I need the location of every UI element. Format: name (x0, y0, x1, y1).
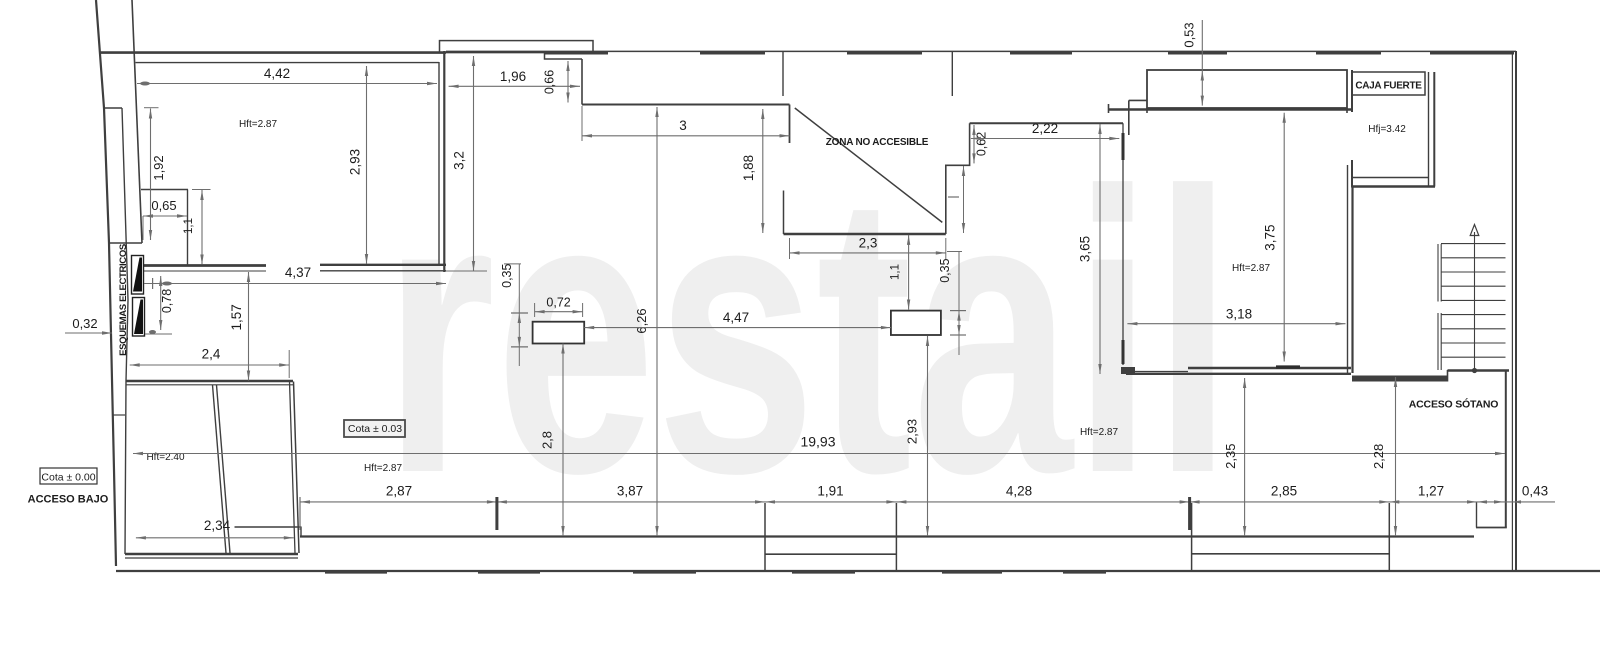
wall ledge left of chain start (235, 526, 302, 528)
wall top thick segment 4 (1010, 52, 1072, 55)
svg-text:2,22: 2,22 (1032, 121, 1058, 136)
recess 2 under wall (1192, 503, 1390, 571)
dimension 2,3 (790, 252, 946, 254)
wall caja fuerte right outer (1433, 72, 1435, 187)
wall right room bottom dark dash (1276, 365, 1300, 368)
wall outer bottom thick segment 4 (792, 570, 855, 573)
wall sotano step vertical (1476, 503, 1478, 528)
wall bl-room top heavy (126, 380, 293, 382)
dimension 0,72 (535, 311, 583, 313)
wall caja fuerte left upper (1351, 70, 1353, 112)
wall left inner slant mid (122, 108, 128, 554)
wall bl-room bottom heavy (125, 553, 298, 555)
wall zona left lower (783, 191, 785, 235)
dimension 4,47 (584, 327, 891, 329)
wall interior bottom (300, 535, 1474, 537)
svg-text:Hft=2.87: Hft=2.87 (364, 463, 403, 474)
extension 0,65 left (142, 216, 144, 240)
wall caja fuerte bottom heavy (1352, 185, 1435, 187)
dimension 3 (582, 135, 790, 137)
dimension 0,35 left column (518, 264, 520, 366)
wall outer bottom thick segment 3 (633, 570, 696, 573)
dimension 0,78 (160, 276, 162, 330)
column 1 (left pillar) (533, 322, 585, 344)
svg-text:0,78: 0,78 (160, 289, 174, 313)
svg-text:ESQUEMAS ELECTRICOS: ESQUEMAS ELECTRICOS (118, 243, 129, 356)
closet rect top of right room (1147, 70, 1347, 108)
wall tick at x783 (782, 52, 784, 96)
svg-text:0,62: 0,62 (975, 132, 989, 156)
svg-text:3,75: 3,75 (1263, 224, 1278, 250)
dimension 2,93 room (366, 66, 368, 264)
wall top-left room right outer (443, 51, 445, 272)
wall right room bottom door sill (1134, 371, 1188, 373)
wall top of top-left room inner (136, 62, 440, 64)
dimension 0,65 (143, 215, 187, 217)
dimension 2,28 (1395, 377, 1397, 536)
dimension 0,53 (1201, 20, 1203, 106)
svg-text:3,65: 3,65 (1078, 236, 1093, 262)
svg-text:0,35: 0,35 (938, 258, 952, 282)
svg-text:CAJA FUERTE: CAJA FUERTE (1355, 81, 1422, 92)
dimension small right of zona (963, 166, 965, 233)
dimension 1,88 (762, 109, 764, 233)
wall top thin continuous (446, 50, 1516, 52)
svg-text:2,4: 2,4 (202, 347, 221, 362)
wall top-left room bottom left lower line (138, 270, 266, 272)
wall step to stairs bottom (1447, 370, 1449, 382)
svg-text:4,37: 4,37 (285, 265, 311, 280)
wall top thick segment 7 (1430, 52, 1514, 55)
dimension 1,1 zona (908, 235, 910, 310)
extension lines for 2,3 (789, 238, 791, 259)
svg-text:0,65: 0,65 (151, 198, 176, 213)
wall jog y108 (104, 107, 123, 109)
svg-text:Cota ± 0.03: Cota ± 0.03 (348, 423, 402, 435)
wall top-left room bottom right segment (320, 264, 446, 266)
wall jog y415 (113, 414, 126, 416)
svg-text:1,96: 1,96 (500, 69, 526, 84)
svg-text:ACCESO SÓTANO: ACCESO SÓTANO (1409, 398, 1498, 411)
diagonal line zona (795, 108, 943, 222)
svg-text:Hft=2.87: Hft=2.87 (239, 119, 278, 130)
extension 0,78 bottom (145, 333, 172, 335)
dimension 1,92 (150, 109, 152, 241)
wall closet top (141, 189, 188, 191)
dimension 0,66 (567, 61, 569, 103)
wall outer bottom (116, 570, 1600, 572)
svg-text:2,28: 2,28 (1371, 444, 1386, 469)
cota 0.03 box (344, 420, 405, 437)
svg-text:6,26: 6,26 (634, 308, 649, 333)
wall outer bottom thick segment 6 (1063, 570, 1106, 573)
wall right room left (1122, 123, 1124, 365)
dimension 4,37 (144, 283, 446, 285)
wall top thick segment 3 (847, 52, 922, 55)
wall right room bottom left foot (1121, 367, 1135, 374)
dimension 0,32 (65, 332, 112, 334)
dimension 2,93 col (927, 336, 929, 536)
wall bl-room partition line2 (217, 385, 231, 553)
wall top thick segment 5 (1168, 52, 1227, 55)
wall stairs bottom (1448, 369, 1510, 371)
dimension chain 2,87 3,87 1,91 4,28 2,85 1,27 0,43 (300, 501, 1555, 503)
parapet bump above top wall (440, 41, 594, 53)
svg-text:Hft=2.87: Hft=2.87 (1080, 427, 1119, 438)
svg-text:4,28: 4,28 (1006, 484, 1032, 499)
closet corner ticks (1147, 108, 1347, 113)
extension for dim 3 (581, 106, 583, 141)
wall right room right outer (1351, 187, 1353, 374)
svg-text:0,66: 0,66 (543, 70, 557, 94)
wall vertical x582 (581, 59, 583, 105)
dimension 1,96 (449, 85, 580, 87)
wall zona left upper (789, 105, 791, 144)
svg-text:Hfj=3.42: Hfj=3.42 (1368, 124, 1406, 135)
svg-text:1,1: 1,1 (890, 264, 902, 280)
stairs with up arrow (1438, 232, 1506, 371)
wall right room bottom lower line (1126, 373, 1351, 375)
dimension 3,75 (1283, 113, 1285, 362)
dimension 4,42 (137, 83, 437, 85)
dimension 1,1 closet (201, 190, 203, 265)
wall y104 between x582-789 (582, 104, 790, 106)
recess 1 under wall (765, 503, 896, 571)
dimension 2,34 (136, 537, 294, 539)
svg-text:2,34: 2,34 (204, 518, 231, 533)
dimension 3,2 (473, 56, 475, 271)
wall bl-room right outer slant (294, 382, 300, 554)
wall bl-room bottom lower (125, 557, 298, 559)
dimension 3,18 (1127, 323, 1345, 325)
wall left outer slanted (96, 0, 116, 566)
door leaf 1 fill (133, 258, 142, 292)
wall outer bottom thick segment 1 (325, 570, 387, 573)
dimension 2,8 (562, 344, 564, 537)
cota 0.00 box (40, 468, 97, 484)
wall outer bottom thick segment 2 (478, 570, 540, 573)
extension line right of room bottom (446, 270, 487, 272)
wall top-left room right inner (438, 62, 440, 266)
svg-text:4,42: 4,42 (264, 66, 290, 81)
wall bl-room partition line1 (213, 385, 227, 553)
extension line closet top (192, 189, 211, 191)
dimension 0,62 (973, 125, 975, 163)
wall bl-room right inner slant (290, 382, 296, 554)
wall step x301 (300, 527, 302, 538)
svg-text:2,93: 2,93 (348, 149, 363, 175)
door leaf 2 fill (134, 300, 143, 335)
svg-text:1,1: 1,1 (183, 218, 195, 234)
dimension 0,35 zona (958, 251, 960, 355)
dimension 2,4 (130, 364, 290, 366)
wall closet right (187, 190, 189, 266)
wall top of top-left room outer (100, 51, 447, 54)
wall y123 between x969-1123 (970, 122, 1123, 124)
svg-text:1,27: 1,27 (1418, 484, 1444, 499)
caja fuerte label box (1352, 72, 1425, 95)
svg-text:3: 3 (679, 118, 687, 133)
svg-text:2,35: 2,35 (1223, 444, 1238, 469)
wall top thick segment 6 (1316, 52, 1381, 55)
svg-text:0,35: 0,35 (500, 263, 514, 287)
wall zona bottom (784, 233, 946, 235)
wall top thick segment 1 (544, 52, 608, 55)
door leaf 1 frame (132, 256, 144, 295)
wall top-left room bottom left segment (142, 264, 266, 267)
wall step near 1,96 passage (545, 53, 583, 59)
svg-text:3,87: 3,87 (617, 484, 643, 499)
wall step right-room top-left (1129, 99, 1147, 101)
extension ticks 0,72 (534, 303, 536, 317)
svg-text:Hft=2.87: Hft=2.87 (1232, 263, 1271, 274)
svg-text:1,92: 1,92 (151, 155, 166, 180)
svg-text:2,3: 2,3 (859, 236, 878, 251)
door leaf 2 frame (133, 298, 145, 337)
svg-text:2,8: 2,8 (540, 431, 555, 449)
column 2 (right pillar) (891, 311, 941, 335)
svg-text:restail: restail (383, 109, 1233, 556)
wall bl-room top inner (126, 384, 293, 386)
dimension 3,65 (1099, 124, 1101, 374)
wall jog y243 (109, 242, 142, 244)
svg-text:1,57: 1,57 (229, 304, 244, 330)
svg-text:0,72: 0,72 (546, 296, 570, 310)
svg-text:0,43: 0,43 (1522, 484, 1548, 499)
svg-text:0,32: 0,32 (72, 316, 97, 331)
wall left inner slant upper (132, 0, 142, 243)
wall caja fuerte left lower (1351, 160, 1353, 188)
wall outer bottom thick segment 5 (942, 570, 1002, 573)
wall corridor bottom right of room (1352, 376, 1447, 382)
wall right room right inner (1347, 165, 1349, 373)
svg-text:ZONA NO ACCESIBLE: ZONA NO ACCESIBLE (826, 137, 929, 148)
dimension 2,35 (1244, 378, 1246, 536)
svg-text:2,93: 2,93 (905, 419, 920, 444)
svg-text:0,53: 0,53 (1182, 22, 1197, 47)
dimension 1,57 (248, 272, 250, 381)
dimension 6,26 (656, 107, 658, 536)
wall caja fuerte right inner (1428, 72, 1430, 187)
wall top thick segment 2 (700, 52, 765, 55)
svg-text:2,85: 2,85 (1271, 484, 1297, 499)
wall sotano right (1505, 371, 1507, 528)
svg-text:1,91: 1,91 (817, 484, 843, 499)
svg-text:2,87: 2,87 (386, 484, 412, 499)
dimension 19,93 (133, 453, 1505, 455)
svg-text:4,47: 4,47 (723, 310, 749, 325)
svg-text:3,2: 3,2 (452, 151, 467, 170)
dimension 2,22 (971, 138, 1119, 140)
wall right room left dark chunks (1122, 133, 1125, 364)
closet bottom heavy line (1109, 108, 1353, 110)
svg-text:ACCESO BAJO: ACCESO BAJO (28, 494, 109, 506)
svg-text:Cota ± 0.00: Cota ± 0.00 (41, 472, 95, 484)
wall zona right step (946, 123, 970, 234)
wall top-left room bottom right lower line (320, 270, 446, 272)
svg-text:19,93: 19,93 (800, 434, 835, 450)
svg-text:3,18: 3,18 (1226, 307, 1252, 322)
wall sotano ledge (1476, 527, 1507, 529)
extension 2,4 right (288, 350, 290, 378)
wall right outer double (1512, 51, 1516, 571)
closet bottom left tick (1108, 104, 1110, 113)
wall tick at x952 (951, 52, 953, 96)
wall right room bottom upper line (1188, 367, 1351, 369)
wall caja fuerte bottom thin (1352, 177, 1428, 179)
extension 1,92 top (144, 107, 159, 109)
svg-text:1,88: 1,88 (741, 155, 756, 181)
